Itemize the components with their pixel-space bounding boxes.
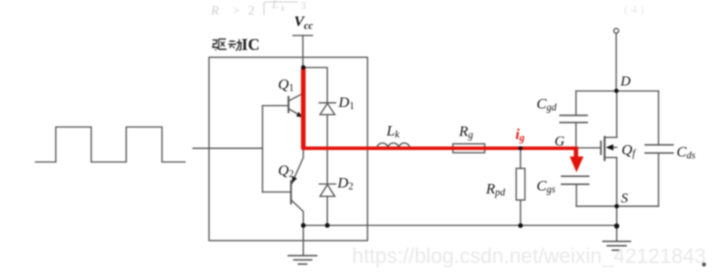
- svg-text:Lk: Lk: [386, 124, 400, 141]
- svg-text:Q1: Q1: [278, 77, 294, 94]
- capacitor Cgd: [560, 91, 587, 146]
- faint formula fragment top: [210, 0, 306, 18]
- square wave input signal: [36, 127, 186, 162]
- resistor Rg: [453, 144, 485, 153]
- svg-text:k: k: [281, 4, 285, 13]
- wire base coupling vertical: [262, 106, 264, 192]
- wire Vcc to node: [302, 36, 304, 68]
- svg-text:2: 2: [248, 3, 255, 18]
- wire terminal to D node: [615, 33, 617, 90]
- svg-text:>: >: [233, 3, 240, 17]
- wire MOSFET source down: [616, 158, 618, 226]
- wire ig node to Rpd: [520, 148, 522, 168]
- node dot source rail: [614, 223, 619, 228]
- svg-text:Cgs: Cgs: [537, 179, 556, 196]
- cursor dot: [702, 263, 706, 267]
- svg-text:R: R: [210, 3, 219, 18]
- svg-text:(4): (4): [624, 2, 647, 16]
- svg-text:Rg: Rg: [458, 124, 473, 141]
- capacitor Cgs: [562, 176, 589, 206]
- wire gate to MOSFET: [578, 147, 601, 149]
- inductor Lk: [377, 143, 410, 148]
- driver IC box: [209, 57, 368, 240]
- node dot Rpd rail: [518, 223, 523, 228]
- transistor Q2: [263, 149, 304, 226]
- node dot Vcc branch: [301, 65, 305, 69]
- svg-text:ig: ig: [516, 127, 525, 144]
- diode D1: [319, 103, 335, 115]
- wire D node horizontal: [576, 90, 659, 92]
- bottom rail wire: [303, 224, 616, 226]
- node dot Q2 collector rail: [301, 223, 306, 228]
- label 驱动IC: [212, 39, 242, 51]
- svg-text:IC: IC: [242, 35, 260, 54]
- ground (source): [603, 226, 630, 251]
- svg-text:D1: D1: [338, 95, 355, 112]
- drain terminal circle: [614, 28, 619, 33]
- wire bottom of Cgs/Cds: [576, 205, 658, 207]
- node dot source S: [615, 204, 619, 208]
- red arrowhead ig into gate: [570, 157, 584, 173]
- wire D2 to bottom rail: [326, 196, 328, 225]
- Vcc bar symbol: [293, 35, 313, 37]
- svg-text:D: D: [620, 75, 631, 90]
- capacitor Cds: [645, 91, 673, 206]
- svg-text:G: G: [555, 135, 565, 150]
- wire node to D1 branch: [303, 68, 327, 103]
- svg-text:Vcc: Vcc: [294, 14, 313, 32]
- resistor Rpd: [516, 168, 525, 200]
- node dot ig: [519, 146, 523, 150]
- svg-text:Rpd: Rpd: [485, 182, 506, 199]
- node dot drain D: [614, 89, 618, 93]
- red gate current path: [301, 68, 578, 158]
- svg-text:Cgd: Cgd: [537, 97, 558, 114]
- svg-text:Qf: Qf: [622, 143, 637, 160]
- wire D1 to D2: [326, 115, 328, 184]
- svg-text:3: 3: [301, 1, 306, 12]
- svg-text:Q2: Q2: [278, 163, 294, 180]
- transistor Q1: [263, 93, 304, 117]
- wire input to driver IC: [193, 147, 263, 149]
- svg-text:S: S: [621, 192, 628, 207]
- wire D node to MOSFET drain: [616, 91, 618, 137]
- node dot D2 rail: [325, 223, 330, 228]
- MOSFET Qf: [601, 137, 617, 160]
- svg-text:https://blog.csdn.net/weixin_4: https://blog.csdn.net/weixin_42121843: [352, 244, 706, 268]
- diode D2: [319, 184, 335, 196]
- ground (driver IC): [288, 225, 316, 264]
- svg-text:Cds: Cds: [677, 145, 696, 162]
- wire Rpd to bottom rail: [520, 200, 522, 226]
- svg-text:D2: D2: [337, 176, 354, 193]
